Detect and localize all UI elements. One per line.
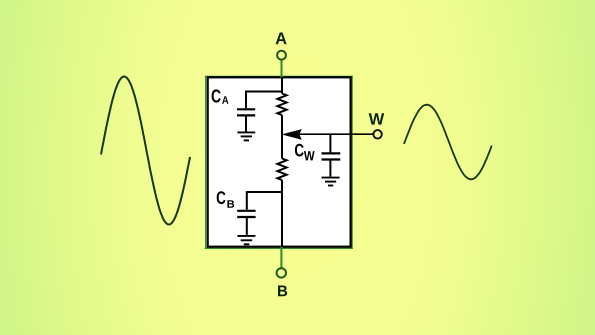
package green outline right edge bbox=[351, 76, 353, 249]
capacitor CB bottom stub bbox=[246, 217, 248, 235]
ground for CW bbox=[322, 178, 340, 186]
wire from top border to resistor bbox=[281, 77, 283, 93]
package green outline left edge bbox=[205, 76, 207, 249]
capacitor CB top wire to node B bbox=[247, 192, 282, 210]
terminal B circle bbox=[277, 268, 286, 277]
resistor lower element R_WB zigzag bbox=[277, 159, 286, 181]
label CB bbox=[217, 191, 235, 208]
right output sine wave bbox=[404, 105, 492, 180]
capacitor CB plates bbox=[237, 211, 255, 217]
terminal W circle bbox=[373, 130, 381, 138]
label A bbox=[276, 33, 287, 45]
package green outline top edge bbox=[205, 75, 353, 77]
ground for CA bbox=[237, 132, 255, 140]
package green outline bottom edge bbox=[205, 247, 353, 249]
wiper wire to terminal W bbox=[296, 133, 374, 135]
wire terminal A to box bbox=[281, 59, 283, 78]
ground for CB bbox=[237, 236, 255, 244]
terminal A circle bbox=[277, 51, 286, 60]
wire between resistor elements bbox=[281, 115, 283, 158]
label B bbox=[278, 286, 287, 297]
capacitor CW plates bbox=[322, 153, 341, 159]
label CA bbox=[212, 89, 229, 103]
capacitor CW bottom stub bbox=[329, 160, 331, 177]
capacitor CA bottom stub bbox=[245, 115, 247, 131]
capacitor CA plates bbox=[237, 109, 255, 115]
wire terminal B to box bbox=[280, 247, 282, 269]
label W bbox=[369, 113, 385, 124]
wire from resistor to bottom border bbox=[281, 180, 283, 247]
label CW bbox=[295, 144, 315, 161]
left input sine wave bbox=[101, 77, 190, 225]
capacitor CW stub from wiper wire bbox=[329, 134, 331, 152]
wiper arrowhead bbox=[284, 130, 301, 139]
capacitor CA top wire to node A bbox=[246, 92, 282, 109]
potentiometer package box bbox=[208, 77, 351, 246]
resistor upper element R_AW zigzag bbox=[277, 94, 286, 116]
